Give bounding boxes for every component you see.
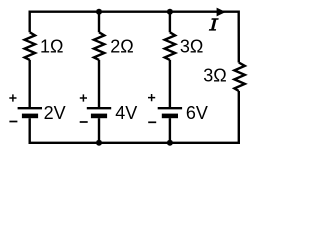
battery V3 6V positive plate	[158, 107, 182, 109]
svg-text:2V: 2V	[44, 103, 66, 123]
wire: branch 2 bottom segment	[98, 118, 100, 143]
node junction dot top branch 2	[96, 9, 102, 15]
battery V1 2V positive plate	[18, 107, 42, 109]
battery V2 4V negative plate	[91, 114, 107, 119]
wire: branch 3 top segment	[169, 12, 171, 33]
wire: bottom rail from left corner to right corner	[30, 91, 239, 143]
minus sign V1	[9, 121, 17, 123]
node junction dot bottom branch 2	[96, 140, 102, 146]
wire: branch 3 middle segment (resistor to battery)	[169, 60, 171, 108]
resistor R2 2ohm zigzag	[94, 32, 104, 60]
minus sign V3	[148, 121, 156, 123]
resistor R4 3ohm zigzag (right side)	[234, 63, 244, 92]
current arrow head	[217, 8, 226, 17]
battery V1 2V negative plate	[22, 114, 38, 119]
wire: branch 2 middle segment (resistor to battery)	[98, 60, 100, 108]
wire: branch 2 top segment	[98, 12, 100, 33]
battery V2 4V positive plate	[87, 107, 111, 109]
minus sign V2	[80, 121, 88, 123]
svg-text:3Ω: 3Ω	[180, 37, 203, 57]
svg-text:6V: 6V	[186, 103, 208, 123]
svg-text:2Ω: 2Ω	[110, 37, 133, 57]
node junction dot bottom branch 3	[167, 140, 173, 146]
resistor R1 1ohm zigzag	[25, 32, 35, 60]
svg-text:3Ω: 3Ω	[203, 66, 226, 86]
wire: branch 3 bottom segment	[169, 118, 171, 143]
resistor R3 3ohm zigzag	[165, 32, 175, 60]
node junction dot top branch 3	[167, 9, 173, 15]
label current I	[209, 18, 219, 30]
svg-text:1Ω: 1Ω	[40, 37, 63, 57]
svg-text:4V: 4V	[115, 103, 137, 123]
plus sign V2	[80, 94, 87, 101]
wire: branch 1 middle segment (resistor to battery)	[29, 60, 31, 108]
battery V3 6V negative plate	[162, 114, 178, 119]
wire: top rail from left corner to right corner	[30, 12, 239, 63]
plus sign V3	[148, 94, 155, 101]
plus sign V1	[9, 94, 16, 101]
